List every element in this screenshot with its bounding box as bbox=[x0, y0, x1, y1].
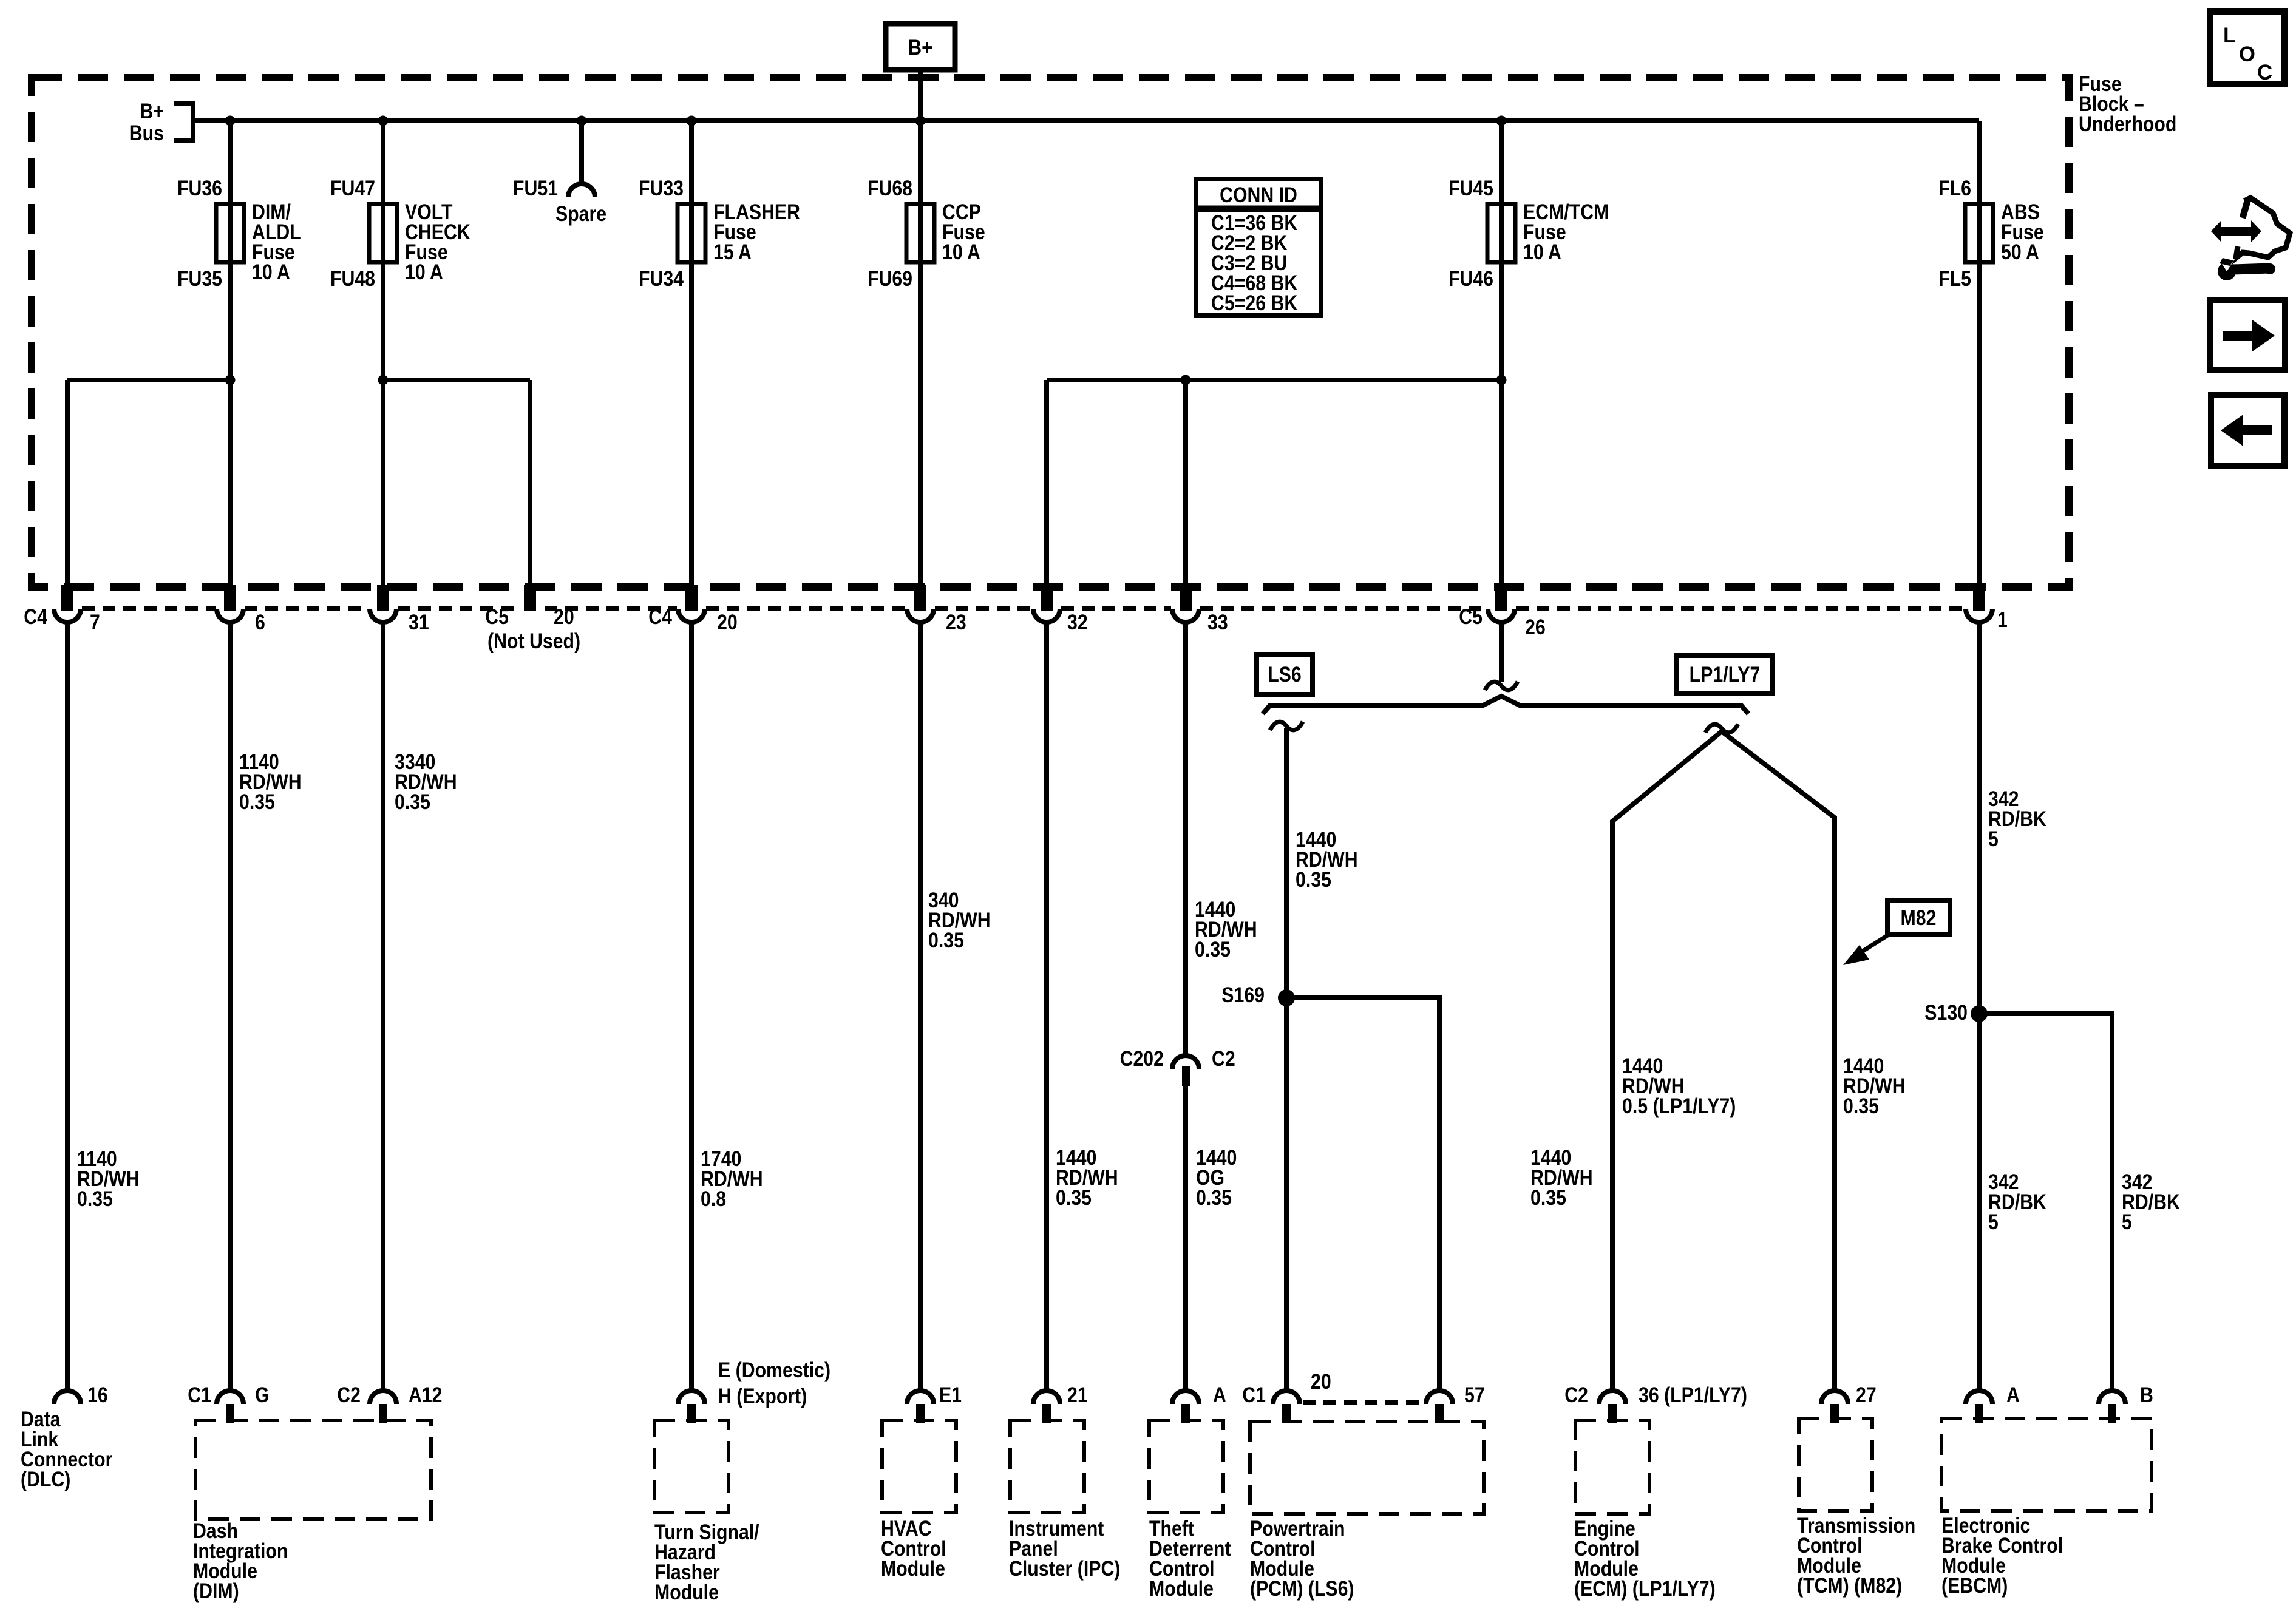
svg-text:C5=26 BK: C5=26 BK bbox=[1211, 291, 1297, 315]
svg-text:(DLC): (DLC) bbox=[21, 1468, 70, 1491]
svg-text:0.35: 0.35 bbox=[1195, 938, 1231, 961]
svg-text:Module: Module bbox=[654, 1581, 719, 1604]
svg-text:FU36: FU36 bbox=[177, 177, 222, 200]
svg-text:(ECM) (LP1/LY7): (ECM) (LP1/LY7) bbox=[1574, 1577, 1716, 1601]
svg-text:FL5: FL5 bbox=[1938, 267, 1971, 291]
svg-text:5: 5 bbox=[1988, 827, 1999, 851]
svg-text:32: 32 bbox=[1067, 611, 1088, 634]
svg-text:10 A: 10 A bbox=[405, 260, 443, 284]
svg-text:C5: C5 bbox=[1459, 605, 1483, 629]
svg-text:C4: C4 bbox=[648, 605, 672, 629]
svg-text:FU48: FU48 bbox=[330, 267, 375, 291]
svg-text:B+: B+ bbox=[140, 100, 165, 123]
svg-text:Cluster (IPC): Cluster (IPC) bbox=[1009, 1557, 1120, 1581]
svg-text:E1: E1 bbox=[939, 1383, 962, 1407]
svg-text:36 (LP1/LY7): 36 (LP1/LY7) bbox=[1639, 1383, 1747, 1407]
svg-text:10 A: 10 A bbox=[1523, 240, 1561, 264]
svg-text:FU45: FU45 bbox=[1449, 177, 1493, 200]
svg-text:15 A: 15 A bbox=[713, 240, 752, 264]
svg-text:Underhood: Underhood bbox=[2079, 112, 2176, 136]
svg-text:(PCM) (LS6): (PCM) (LS6) bbox=[1250, 1577, 1354, 1601]
svg-text:(EBCM): (EBCM) bbox=[1941, 1574, 2008, 1598]
svg-text:0.8: 0.8 bbox=[701, 1187, 726, 1211]
svg-text:0.35: 0.35 bbox=[77, 1187, 113, 1211]
svg-text:7: 7 bbox=[90, 611, 100, 634]
svg-text:G: G bbox=[255, 1383, 270, 1407]
svg-text:20: 20 bbox=[717, 611, 738, 634]
svg-text:FU68: FU68 bbox=[868, 177, 912, 200]
svg-text:0.35: 0.35 bbox=[1196, 1186, 1232, 1210]
svg-text:10 A: 10 A bbox=[252, 260, 290, 284]
svg-text:A: A bbox=[2006, 1383, 2020, 1407]
svg-text:FU51: FU51 bbox=[513, 177, 558, 200]
svg-text:C: C bbox=[2257, 61, 2272, 84]
svg-text:S169: S169 bbox=[1221, 983, 1265, 1007]
svg-text:FU46: FU46 bbox=[1449, 267, 1493, 291]
svg-text:0.35: 0.35 bbox=[1530, 1186, 1566, 1210]
svg-text:0.35: 0.35 bbox=[928, 929, 964, 952]
svg-text:Bus: Bus bbox=[129, 121, 164, 145]
svg-text:5: 5 bbox=[2122, 1210, 2132, 1234]
svg-text:FL6: FL6 bbox=[1938, 177, 1971, 200]
svg-text:50 A: 50 A bbox=[2001, 240, 2039, 264]
svg-text:21: 21 bbox=[1067, 1383, 1088, 1407]
svg-text:C2: C2 bbox=[337, 1383, 361, 1407]
svg-text:1: 1 bbox=[1997, 608, 2008, 632]
svg-text:B: B bbox=[2140, 1383, 2153, 1407]
svg-text:LS6: LS6 bbox=[1268, 663, 1302, 686]
svg-text:(Not Used): (Not Used) bbox=[487, 629, 580, 653]
svg-text:C4: C4 bbox=[24, 605, 47, 629]
svg-text:C2: C2 bbox=[1212, 1047, 1235, 1071]
svg-text:0.35: 0.35 bbox=[1296, 868, 1331, 892]
svg-text:Module: Module bbox=[881, 1557, 945, 1581]
svg-text:31: 31 bbox=[409, 611, 429, 634]
svg-text:A: A bbox=[1213, 1383, 1226, 1407]
svg-text:0.35: 0.35 bbox=[1843, 1094, 1879, 1118]
svg-text:23: 23 bbox=[946, 611, 966, 634]
svg-text:FU47: FU47 bbox=[330, 177, 375, 200]
svg-text:0.5 (LP1/LY7): 0.5 (LP1/LY7) bbox=[1622, 1094, 1736, 1118]
svg-text:B+: B+ bbox=[908, 36, 933, 59]
svg-text:C202: C202 bbox=[1120, 1047, 1164, 1071]
svg-text:Module: Module bbox=[1149, 1577, 1214, 1601]
svg-text:16: 16 bbox=[87, 1383, 108, 1407]
svg-text:LP1/LY7: LP1/LY7 bbox=[1690, 663, 1761, 686]
svg-text:L: L bbox=[2223, 24, 2236, 47]
svg-text:S130: S130 bbox=[1924, 1001, 1968, 1025]
svg-text:20: 20 bbox=[554, 605, 574, 629]
svg-text:0.35: 0.35 bbox=[395, 790, 430, 814]
svg-text:6: 6 bbox=[255, 611, 265, 634]
svg-text:0.35: 0.35 bbox=[239, 790, 275, 814]
svg-text:C5: C5 bbox=[485, 605, 509, 629]
svg-text:C1: C1 bbox=[188, 1383, 211, 1407]
svg-text:H (Export): H (Export) bbox=[718, 1385, 807, 1408]
svg-text:FU35: FU35 bbox=[177, 267, 222, 291]
svg-text:FU34: FU34 bbox=[639, 267, 684, 291]
svg-text:FU33: FU33 bbox=[639, 177, 684, 200]
svg-text:C2: C2 bbox=[1564, 1383, 1588, 1407]
svg-text:27: 27 bbox=[1856, 1383, 1877, 1407]
svg-text:E (Domestic): E (Domestic) bbox=[718, 1358, 830, 1382]
svg-text:(TCM) (M82): (TCM) (M82) bbox=[1797, 1574, 1902, 1598]
svg-text:O: O bbox=[2239, 42, 2255, 66]
svg-text:33: 33 bbox=[1207, 611, 1228, 634]
svg-text:CONN ID: CONN ID bbox=[1220, 183, 1297, 207]
svg-text:26: 26 bbox=[1525, 615, 1546, 639]
svg-text:C1: C1 bbox=[1242, 1383, 1266, 1407]
svg-text:Spare: Spare bbox=[555, 202, 606, 226]
svg-text:M82: M82 bbox=[1901, 906, 1937, 930]
svg-text:10 A: 10 A bbox=[942, 240, 980, 264]
svg-text:A12: A12 bbox=[409, 1383, 443, 1407]
svg-text:FU69: FU69 bbox=[868, 267, 912, 291]
svg-text:5: 5 bbox=[1988, 1210, 1999, 1234]
svg-text:(DIM): (DIM) bbox=[193, 1579, 239, 1603]
svg-text:57: 57 bbox=[1464, 1383, 1485, 1407]
svg-text:20: 20 bbox=[1311, 1370, 1331, 1394]
svg-text:0.35: 0.35 bbox=[1056, 1186, 1092, 1210]
